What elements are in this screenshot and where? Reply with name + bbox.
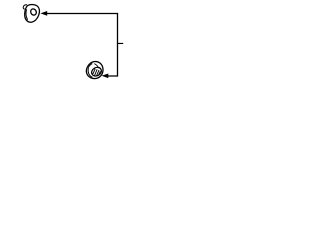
part 2: inner hatched boss outline bbox=[90, 66, 103, 78]
part 1: top-left tab bbox=[23, 5, 27, 9]
callout tick on vertical leader bbox=[118, 42, 124, 44]
part 2: hatch line 2 bbox=[95, 69, 98, 75]
part 2: grommet bottom outer outline bbox=[86, 61, 103, 78]
part 2: hatch line 4 bbox=[98, 71, 100, 75]
leader line polyline (top arrow to right bracket to bottom arrow) bbox=[47, 14, 118, 77]
part 1: inner rim shading arc bbox=[26, 9, 28, 19]
part 2: left rim inner arc bbox=[88, 64, 92, 78]
part 2: top connecting arc bbox=[94, 64, 98, 69]
part 2: hatch line 3 bbox=[97, 70, 100, 76]
arrowhead pointing at part 2 bbox=[102, 73, 109, 78]
part 1: inner hole bbox=[30, 8, 38, 16]
part 1: grommet top-left outer outline bbox=[25, 5, 40, 23]
arrowhead pointing at part 1 bbox=[40, 11, 47, 16]
background bbox=[0, 0, 150, 90]
part 2: hatch line 1 bbox=[93, 69, 95, 75]
